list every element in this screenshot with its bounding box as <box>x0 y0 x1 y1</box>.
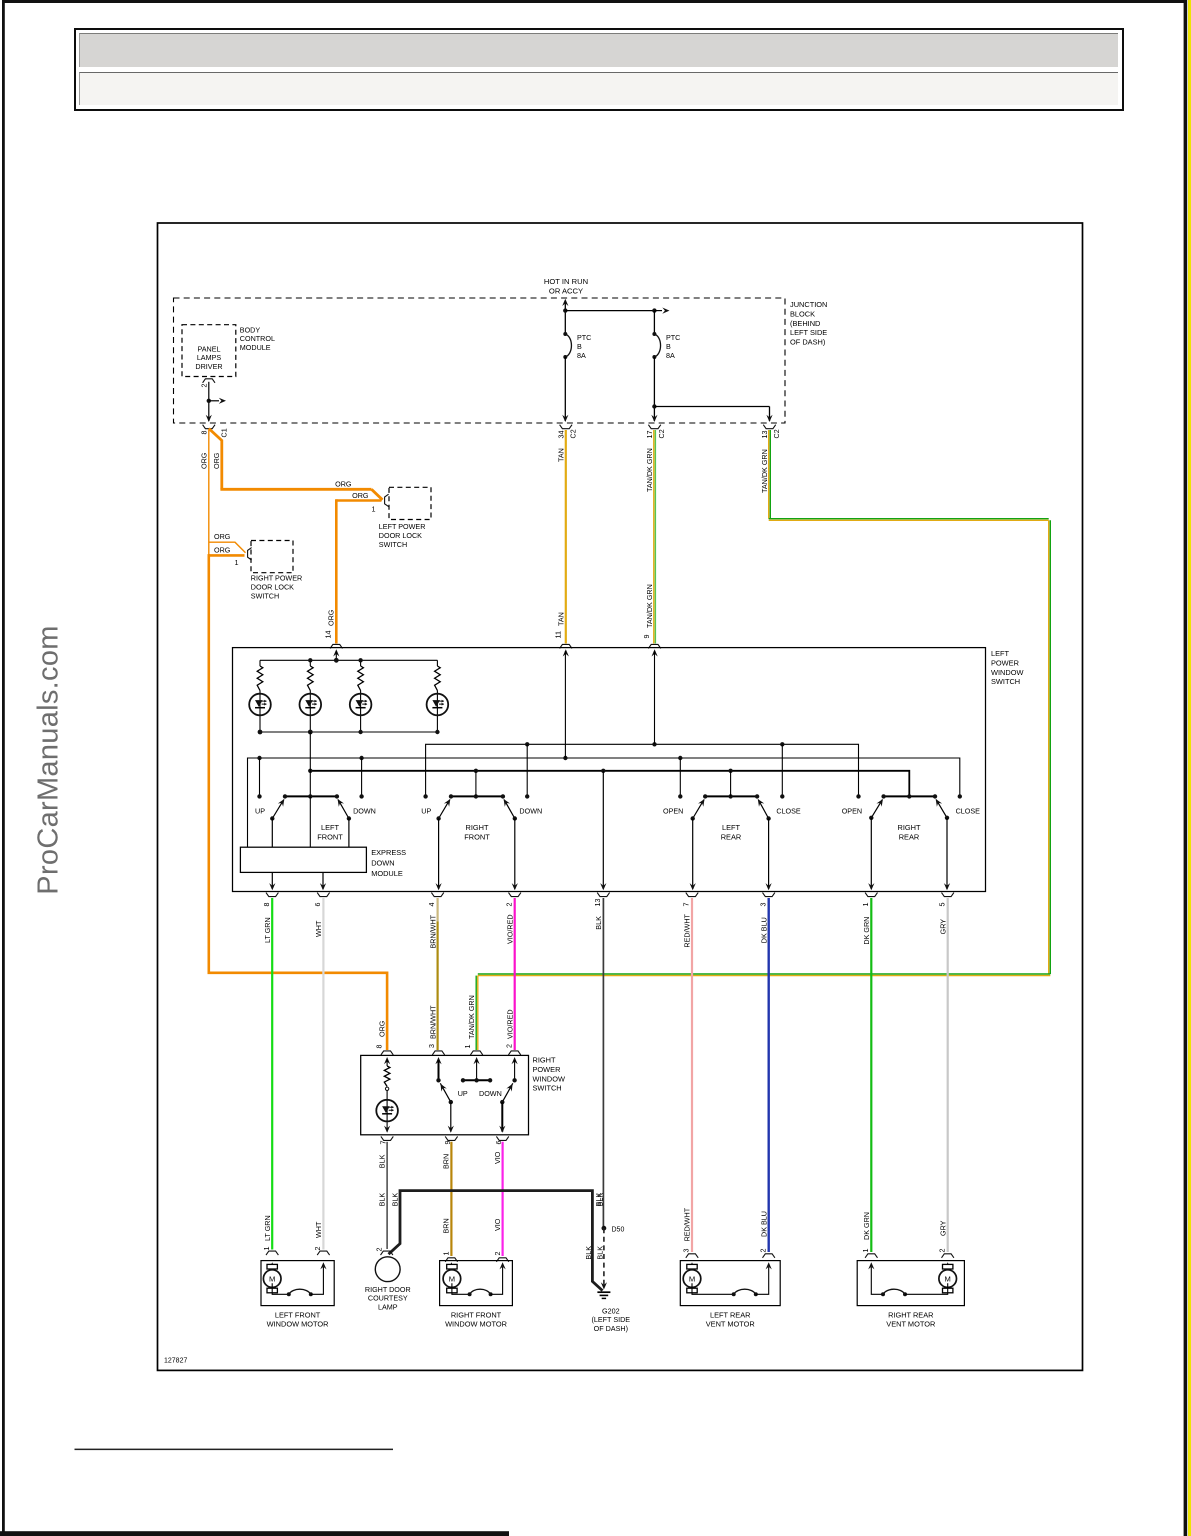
left front switch common post <box>309 732 311 796</box>
left power door lock switch dashed box <box>389 487 431 519</box>
svg-text:(BEHIND: (BEHIND <box>790 319 820 328</box>
svg-text:JUNCTION: JUNCTION <box>790 300 827 309</box>
fuse PTC B 8A (left) <box>563 332 567 336</box>
connector pin 17 C2 <box>648 425 660 429</box>
svg-text:M: M <box>269 1275 275 1284</box>
svg-text:WINDOW MOTOR: WINDOW MOTOR <box>445 1320 507 1329</box>
wire ORG thin from pin 8 C1 down to right door lock branch <box>208 430 210 555</box>
svg-text:C1: C1 <box>220 428 229 437</box>
ground wire pin 13 inside switch <box>602 771 604 889</box>
left rear switch output wires to connector <box>692 819 694 890</box>
body control module dashed box (panel lamps driver) <box>182 325 236 377</box>
left rear switch arm left <box>693 800 704 819</box>
right front window contact drops <box>526 744 528 796</box>
bus A (window up feed) <box>426 744 859 796</box>
left power door lock switch connector pin 1 <box>385 494 389 506</box>
splice node to pin 13 C2 <box>652 404 656 408</box>
wire LT GRN pin 8 to left front window motor pin 1 <box>271 898 273 1250</box>
header row 1 <box>79 33 1118 67</box>
right power window switch box <box>361 1055 529 1134</box>
svg-text:8: 8 <box>262 903 271 907</box>
svg-text:17: 17 <box>645 431 654 439</box>
svg-text:WHT: WHT <box>314 1221 323 1238</box>
wire BLK dashed from splice D50 to ground <box>603 1228 605 1286</box>
wire ORG from left door lock switch to window switch pin 14 <box>336 499 381 502</box>
right power door lock switch connector pin 1 <box>248 548 252 560</box>
svg-text:1: 1 <box>235 558 239 567</box>
right rear switch bar <box>884 795 935 797</box>
connector pin 13 C2 <box>763 425 775 429</box>
right switch pin 2 entry and DOWN contact <box>508 1051 520 1055</box>
wire BLK pin 13 to splice D50 <box>602 898 604 1228</box>
left rear vent motor <box>686 1254 698 1258</box>
svg-text:ORG: ORG <box>352 491 369 500</box>
svg-text:POWER: POWER <box>991 658 1019 667</box>
svg-text:LT GRN: LT GRN <box>263 1215 272 1241</box>
left front switch arm left <box>272 800 284 819</box>
svg-text:TAN: TAN <box>556 448 565 462</box>
svg-text:DK GRN: DK GRN <box>862 917 871 945</box>
right door courtesy lamp <box>381 1251 393 1255</box>
right switch bottom connector pins 7 9 6 <box>381 1136 393 1140</box>
svg-text:BRN: BRN <box>442 1218 451 1233</box>
svg-text:LEFT REAR: LEFT REAR <box>710 1310 751 1319</box>
page border left <box>2 0 5 1536</box>
svg-text:RIGHT FRONT: RIGHT FRONT <box>451 1310 502 1319</box>
wire ORG branch into right door lock switch <box>209 542 246 553</box>
left power window switch box <box>233 648 986 892</box>
svg-text:TAN: TAN <box>556 612 565 626</box>
svg-text:LEFT: LEFT <box>991 649 1010 658</box>
svg-text:PANEL: PANEL <box>197 345 220 354</box>
ground bus thick BLK from courtesy lamp to G202 <box>389 1191 603 1291</box>
connector pin 7 of left power window switch <box>686 893 698 897</box>
svg-text:MODULE: MODULE <box>240 343 271 352</box>
right rear switch output wires to connector <box>870 818 872 889</box>
wire BRN/WHT pin 4 to right power window switch pin 3 <box>437 898 439 922</box>
svg-text:BODY: BODY <box>240 326 261 335</box>
svg-text:ORG: ORG <box>214 532 231 541</box>
svg-text:FRONT: FRONT <box>464 833 490 842</box>
svg-text:7: 7 <box>379 1141 388 1145</box>
svg-text:3: 3 <box>758 903 767 907</box>
right switch illumination resistor <box>386 1060 388 1066</box>
svg-text:C2: C2 <box>657 429 666 438</box>
svg-text:RIGHT REAR: RIGHT REAR <box>888 1310 933 1319</box>
header box <box>74 28 1124 111</box>
svg-text:BLK: BLK <box>377 1154 386 1168</box>
svg-text:LEFT SIDE: LEFT SIDE <box>790 328 827 337</box>
illumination lamp branch 4 (resistor + LED) <box>436 660 438 666</box>
svg-text:BRN/WHT: BRN/WHT <box>428 914 437 948</box>
svg-text:ORG: ORG <box>335 479 352 488</box>
left rear switch arm right <box>758 800 768 819</box>
svg-text:DOOR LOCK: DOOR LOCK <box>251 583 294 592</box>
svg-text:M: M <box>449 1275 455 1284</box>
svg-text:2: 2 <box>937 1249 946 1253</box>
svg-text:8A: 8A <box>577 351 586 360</box>
svg-text:GRY: GRY <box>938 919 947 935</box>
header row 2 <box>79 72 1118 105</box>
svg-text:ORG: ORG <box>327 609 336 626</box>
svg-text:VIO/RED: VIO/RED <box>505 1009 514 1039</box>
svg-text:B: B <box>577 342 582 351</box>
express down module box <box>240 847 366 872</box>
left front window motor <box>266 1251 278 1255</box>
wire VIO from right switch pin 6 to right front motor pin 2 <box>502 1142 504 1256</box>
svg-text:13: 13 <box>760 431 769 439</box>
wire TAN/DK GRN from pin 13 C2 to right power window switch pin 1 <box>768 430 770 519</box>
svg-text:14: 14 <box>324 631 333 639</box>
svg-text:RIGHT POWER: RIGHT POWER <box>251 574 302 583</box>
svg-text:COURTESY: COURTESY <box>368 1294 408 1303</box>
ground symbol G202 <box>597 1291 610 1293</box>
svg-text:BLK: BLK <box>594 916 603 930</box>
wire BLK from right switch pin 7 to courtesy lamp <box>386 1142 388 1249</box>
wire fuse 2 to junction bottom edge <box>653 357 655 421</box>
svg-text:TAN/DK GRN: TAN/DK GRN <box>645 584 654 628</box>
svg-text:2: 2 <box>313 1247 322 1251</box>
svg-text:LEFT: LEFT <box>321 823 340 832</box>
svg-text:2: 2 <box>493 1252 502 1256</box>
svg-text:1: 1 <box>463 1045 472 1049</box>
right front switch output wires to connector <box>438 819 440 890</box>
svg-text:UP: UP <box>421 806 431 815</box>
right front window motor <box>445 1258 457 1262</box>
bus B (window down feed) <box>248 758 960 847</box>
illumination lamp branch 3 (resistor + LED) <box>360 660 362 666</box>
svg-text:ORG: ORG <box>212 452 221 469</box>
connector pin 34 C2 <box>560 425 572 429</box>
svg-text:OF DASH): OF DASH) <box>594 1324 628 1333</box>
wire TAN from pin 34 to switch pin 11 <box>565 430 567 644</box>
svg-text:SWITCH: SWITCH <box>379 540 407 549</box>
page border top <box>2 0 1187 3</box>
connector pin 4 of left power window switch <box>431 893 443 897</box>
svg-text:WINDOW: WINDOW <box>991 668 1023 677</box>
splice on panel lamps wire with branch arrow <box>207 399 211 403</box>
wire BRN from right switch pin 9 to right front motor pin 1 <box>450 1142 452 1256</box>
svg-text:SWITCH: SWITCH <box>251 592 279 601</box>
svg-text:OPEN: OPEN <box>842 806 862 815</box>
svg-text:WINDOW: WINDOW <box>533 1074 565 1083</box>
left front switch arms into express down module <box>271 818 273 847</box>
connector pin 8 C1 <box>203 425 215 429</box>
svg-text:ORG: ORG <box>214 545 231 554</box>
svg-text:DOWN: DOWN <box>479 1089 502 1098</box>
splice D50 <box>602 1226 607 1231</box>
svg-text:2: 2 <box>375 1248 384 1252</box>
svg-text:DOWN: DOWN <box>353 806 376 815</box>
svg-text:VIO/RED: VIO/RED <box>505 914 514 944</box>
svg-text:RIGHT: RIGHT <box>898 823 921 832</box>
right rear switch arm right <box>936 800 947 818</box>
right switch UP arm <box>440 1083 451 1102</box>
svg-text:1: 1 <box>861 903 870 907</box>
svg-text:BLK: BLK <box>377 1193 386 1207</box>
wire TAN/DK GRN from pin 17 to switch pin 9 <box>653 430 655 644</box>
svg-text:1: 1 <box>262 1247 271 1251</box>
right rear vent motor <box>865 1254 877 1258</box>
wire ORG thick from pin 8 C1 to left door lock switch <box>209 429 222 490</box>
svg-text:M: M <box>945 1275 951 1284</box>
svg-text:LEFT POWER: LEFT POWER <box>379 522 426 531</box>
right front switch bar <box>451 795 503 797</box>
junction block dashed box <box>174 298 786 423</box>
illumination bus top <box>260 659 437 661</box>
svg-text:C2: C2 <box>772 429 781 438</box>
svg-text:8A: 8A <box>666 351 675 360</box>
right switch illumination LED <box>386 1091 388 1132</box>
diagram border box <box>158 223 1083 1370</box>
right rear switch arm left <box>871 800 882 818</box>
svg-text:4: 4 <box>427 903 436 907</box>
svg-text:RIGHT: RIGHT <box>466 823 489 832</box>
svg-text:2: 2 <box>758 1249 767 1253</box>
illumination bus bottom <box>260 731 437 733</box>
wire pin 11 to bus B <box>564 651 566 758</box>
bus C (common) <box>310 771 909 797</box>
connector pin 8 of left power window switch <box>266 893 278 897</box>
svg-text:GRY: GRY <box>938 1220 947 1236</box>
svg-text:127827: 127827 <box>164 1358 187 1365</box>
svg-text:LEFT: LEFT <box>722 823 741 832</box>
right switch pin 1 entry and common bar <box>470 1051 482 1055</box>
right switch DOWN arm <box>502 1083 513 1102</box>
svg-text:8: 8 <box>375 1045 384 1049</box>
svg-text:11: 11 <box>553 631 562 638</box>
svg-text:2: 2 <box>504 1044 513 1048</box>
wire RED/WHT pin 7 to left rear vent motor pin 3 <box>691 898 693 1252</box>
connector pin 1 of left power window switch <box>865 893 877 897</box>
right rear vent contact drops <box>856 794 860 798</box>
svg-text:9: 9 <box>642 635 651 639</box>
svg-text:POWER: POWER <box>533 1065 561 1074</box>
fuse PTC B 8A (right) <box>653 311 655 334</box>
pin 2 of panel lamps driver <box>203 379 215 383</box>
svg-text:34: 34 <box>556 431 565 439</box>
svg-text:ProCarManuals.com: ProCarManuals.com <box>33 625 65 894</box>
svg-text:PTC: PTC <box>666 333 680 342</box>
svg-text:(LEFT SIDE: (LEFT SIDE <box>591 1315 630 1324</box>
svg-text:RIGHT DOOR: RIGHT DOOR <box>365 1285 411 1294</box>
svg-text:OR ACCY: OR ACCY <box>549 287 583 296</box>
svg-text:REAR: REAR <box>721 833 742 842</box>
svg-text:C2: C2 <box>568 429 577 438</box>
svg-text:3: 3 <box>682 1249 691 1253</box>
feed wire HOT IN RUN into junction block <box>562 299 568 306</box>
svg-text:TAN/DK GRN: TAN/DK GRN <box>645 448 654 492</box>
wire splice to fuse 2 <box>565 310 654 312</box>
wire pin 9 to bus A <box>654 651 656 744</box>
node splice at fuse 1 top <box>563 308 567 312</box>
svg-text:VIO: VIO <box>493 1151 502 1164</box>
wire from panel lamps driver pin 2 to junction bottom <box>208 382 210 421</box>
svg-text:BRN: BRN <box>442 1154 451 1169</box>
wire VIO/RED pin 2 to right power window switch pin 2 <box>514 898 516 1050</box>
svg-text:ORG: ORG <box>199 452 208 469</box>
svg-text:RED/WHT: RED/WHT <box>683 913 692 947</box>
connector pin 3 of left power window switch <box>763 893 775 897</box>
svg-text:3: 3 <box>427 1044 436 1048</box>
svg-text:LAMPS: LAMPS <box>197 353 222 362</box>
connector pin 13 of left power window switch <box>597 893 609 897</box>
svg-text:UP: UP <box>255 806 265 815</box>
wire fuse 1 to junction bottom edge <box>564 357 566 421</box>
footnote rule <box>75 1449 394 1451</box>
svg-text:5: 5 <box>937 903 946 907</box>
svg-text:B: B <box>666 342 671 351</box>
svg-text:2: 2 <box>200 384 209 388</box>
junction dots on illumination buses <box>308 658 312 662</box>
right power door lock switch dashed box <box>251 541 293 573</box>
svg-text:TAN/DK GRN: TAN/DK GRN <box>760 449 769 493</box>
svg-text:DOWN: DOWN <box>371 859 394 868</box>
svg-text:VIO: VIO <box>493 1218 502 1231</box>
page bottom partial bar <box>0 1531 509 1536</box>
svg-text:WINDOW MOTOR: WINDOW MOTOR <box>267 1320 329 1329</box>
svg-text:1: 1 <box>861 1249 870 1253</box>
svg-text:CLOSE: CLOSE <box>956 806 981 815</box>
svg-text:LT GRN: LT GRN <box>263 917 272 943</box>
svg-text:MODULE: MODULE <box>371 869 403 878</box>
svg-text:RED/WHT: RED/WHT <box>683 1207 692 1241</box>
wire pin 14 to illumination bus <box>335 651 337 660</box>
svg-text:TAN/DK GRN: TAN/DK GRN <box>467 995 476 1039</box>
svg-text:CONTROL: CONTROL <box>240 334 275 343</box>
wire ORG from right door lock switch down-left and to right window switch pin 8 <box>209 554 245 557</box>
svg-text:1: 1 <box>442 1252 451 1256</box>
svg-text:BLOCK: BLOCK <box>790 309 815 318</box>
svg-text:FRONT: FRONT <box>317 833 343 842</box>
right switch pin 3 entry and UP contact <box>432 1051 444 1055</box>
svg-text:G202: G202 <box>602 1307 620 1316</box>
svg-text:DK BLU: DK BLU <box>759 917 768 943</box>
illumination lamp branch 2 (resistor + LED) <box>309 660 311 666</box>
left rear vent contact drops <box>679 758 681 796</box>
svg-text:DRIVER: DRIVER <box>195 362 222 371</box>
svg-text:BLK: BLK <box>595 1193 604 1207</box>
left rear switch bar <box>705 795 757 797</box>
wire WHT pin 6 to left front window motor pin 2 <box>322 898 324 1250</box>
right front switch arm left <box>439 800 450 819</box>
svg-text:CLOSE: CLOSE <box>776 806 801 815</box>
svg-text:REAR: REAR <box>899 833 920 842</box>
left front switch bar <box>285 795 337 797</box>
svg-text:WHT: WHT <box>314 920 323 937</box>
svg-text:6: 6 <box>313 903 322 907</box>
svg-text:M: M <box>689 1275 695 1284</box>
svg-text:EXPRESS: EXPRESS <box>371 848 406 857</box>
svg-text:RIGHT: RIGHT <box>533 1056 556 1065</box>
connector pin 5 of left power window switch <box>942 893 954 897</box>
svg-text:D50: D50 <box>612 1227 625 1234</box>
svg-text:LAMP: LAMP <box>378 1303 398 1312</box>
svg-text:LEFT FRONT: LEFT FRONT <box>275 1310 321 1319</box>
right switch pin 8 entry <box>381 1051 393 1055</box>
page edge yellow strip <box>1188 0 1191 1536</box>
connector pin 2 of left power window switch <box>509 893 521 897</box>
svg-text:SWITCH: SWITCH <box>533 1084 562 1093</box>
svg-text:UP: UP <box>458 1089 468 1098</box>
svg-text:SWITCH: SWITCH <box>991 677 1020 686</box>
svg-text:1: 1 <box>372 505 376 514</box>
svg-text:OF DASH): OF DASH) <box>790 338 825 347</box>
page border right <box>1184 0 1188 1536</box>
svg-text:8: 8 <box>199 431 208 435</box>
wire contact drops left front switch <box>259 758 261 796</box>
left front switch common post to module <box>309 796 311 847</box>
svg-text:7: 7 <box>682 903 691 907</box>
wire DK BLU pin 3 to left rear vent motor pin 2 <box>768 898 770 1252</box>
svg-text:BLK: BLK <box>584 1246 593 1260</box>
svg-text:DK GRN: DK GRN <box>862 1212 871 1240</box>
svg-text:PTC: PTC <box>577 333 591 342</box>
right front switch common post <box>475 771 477 797</box>
svg-text:HOT IN RUN: HOT IN RUN <box>544 277 588 286</box>
svg-text:OPEN: OPEN <box>663 806 683 815</box>
left rear switch common post <box>730 771 732 797</box>
svg-text:DK BLU: DK BLU <box>759 1211 768 1237</box>
right front switch arm right <box>504 800 515 819</box>
wire DK GRN pin 1 to right rear vent motor pin 1 <box>870 898 872 1252</box>
svg-text:DOOR LOCK: DOOR LOCK <box>379 531 422 540</box>
svg-text:DOWN: DOWN <box>519 806 542 815</box>
wire GRY pin 5 to right rear vent motor pin 2 <box>947 898 949 1252</box>
svg-text:VENT MOTOR: VENT MOTOR <box>706 1320 755 1329</box>
svg-text:VENT MOTOR: VENT MOTOR <box>886 1320 935 1329</box>
express module outputs to connector pins <box>271 872 273 889</box>
svg-text:BRN/WHT: BRN/WHT <box>428 1005 437 1039</box>
connector pin 6 of left power window switch <box>317 893 329 897</box>
svg-text:13: 13 <box>593 899 602 907</box>
left front switch arm right <box>338 800 349 819</box>
illumination lamp branch 1 (resistor + LED) <box>259 660 261 666</box>
svg-text:ORG: ORG <box>378 1020 387 1037</box>
svg-text:BLK: BLK <box>595 1246 604 1260</box>
svg-text:BLK: BLK <box>390 1193 399 1207</box>
svg-text:2: 2 <box>504 903 513 907</box>
